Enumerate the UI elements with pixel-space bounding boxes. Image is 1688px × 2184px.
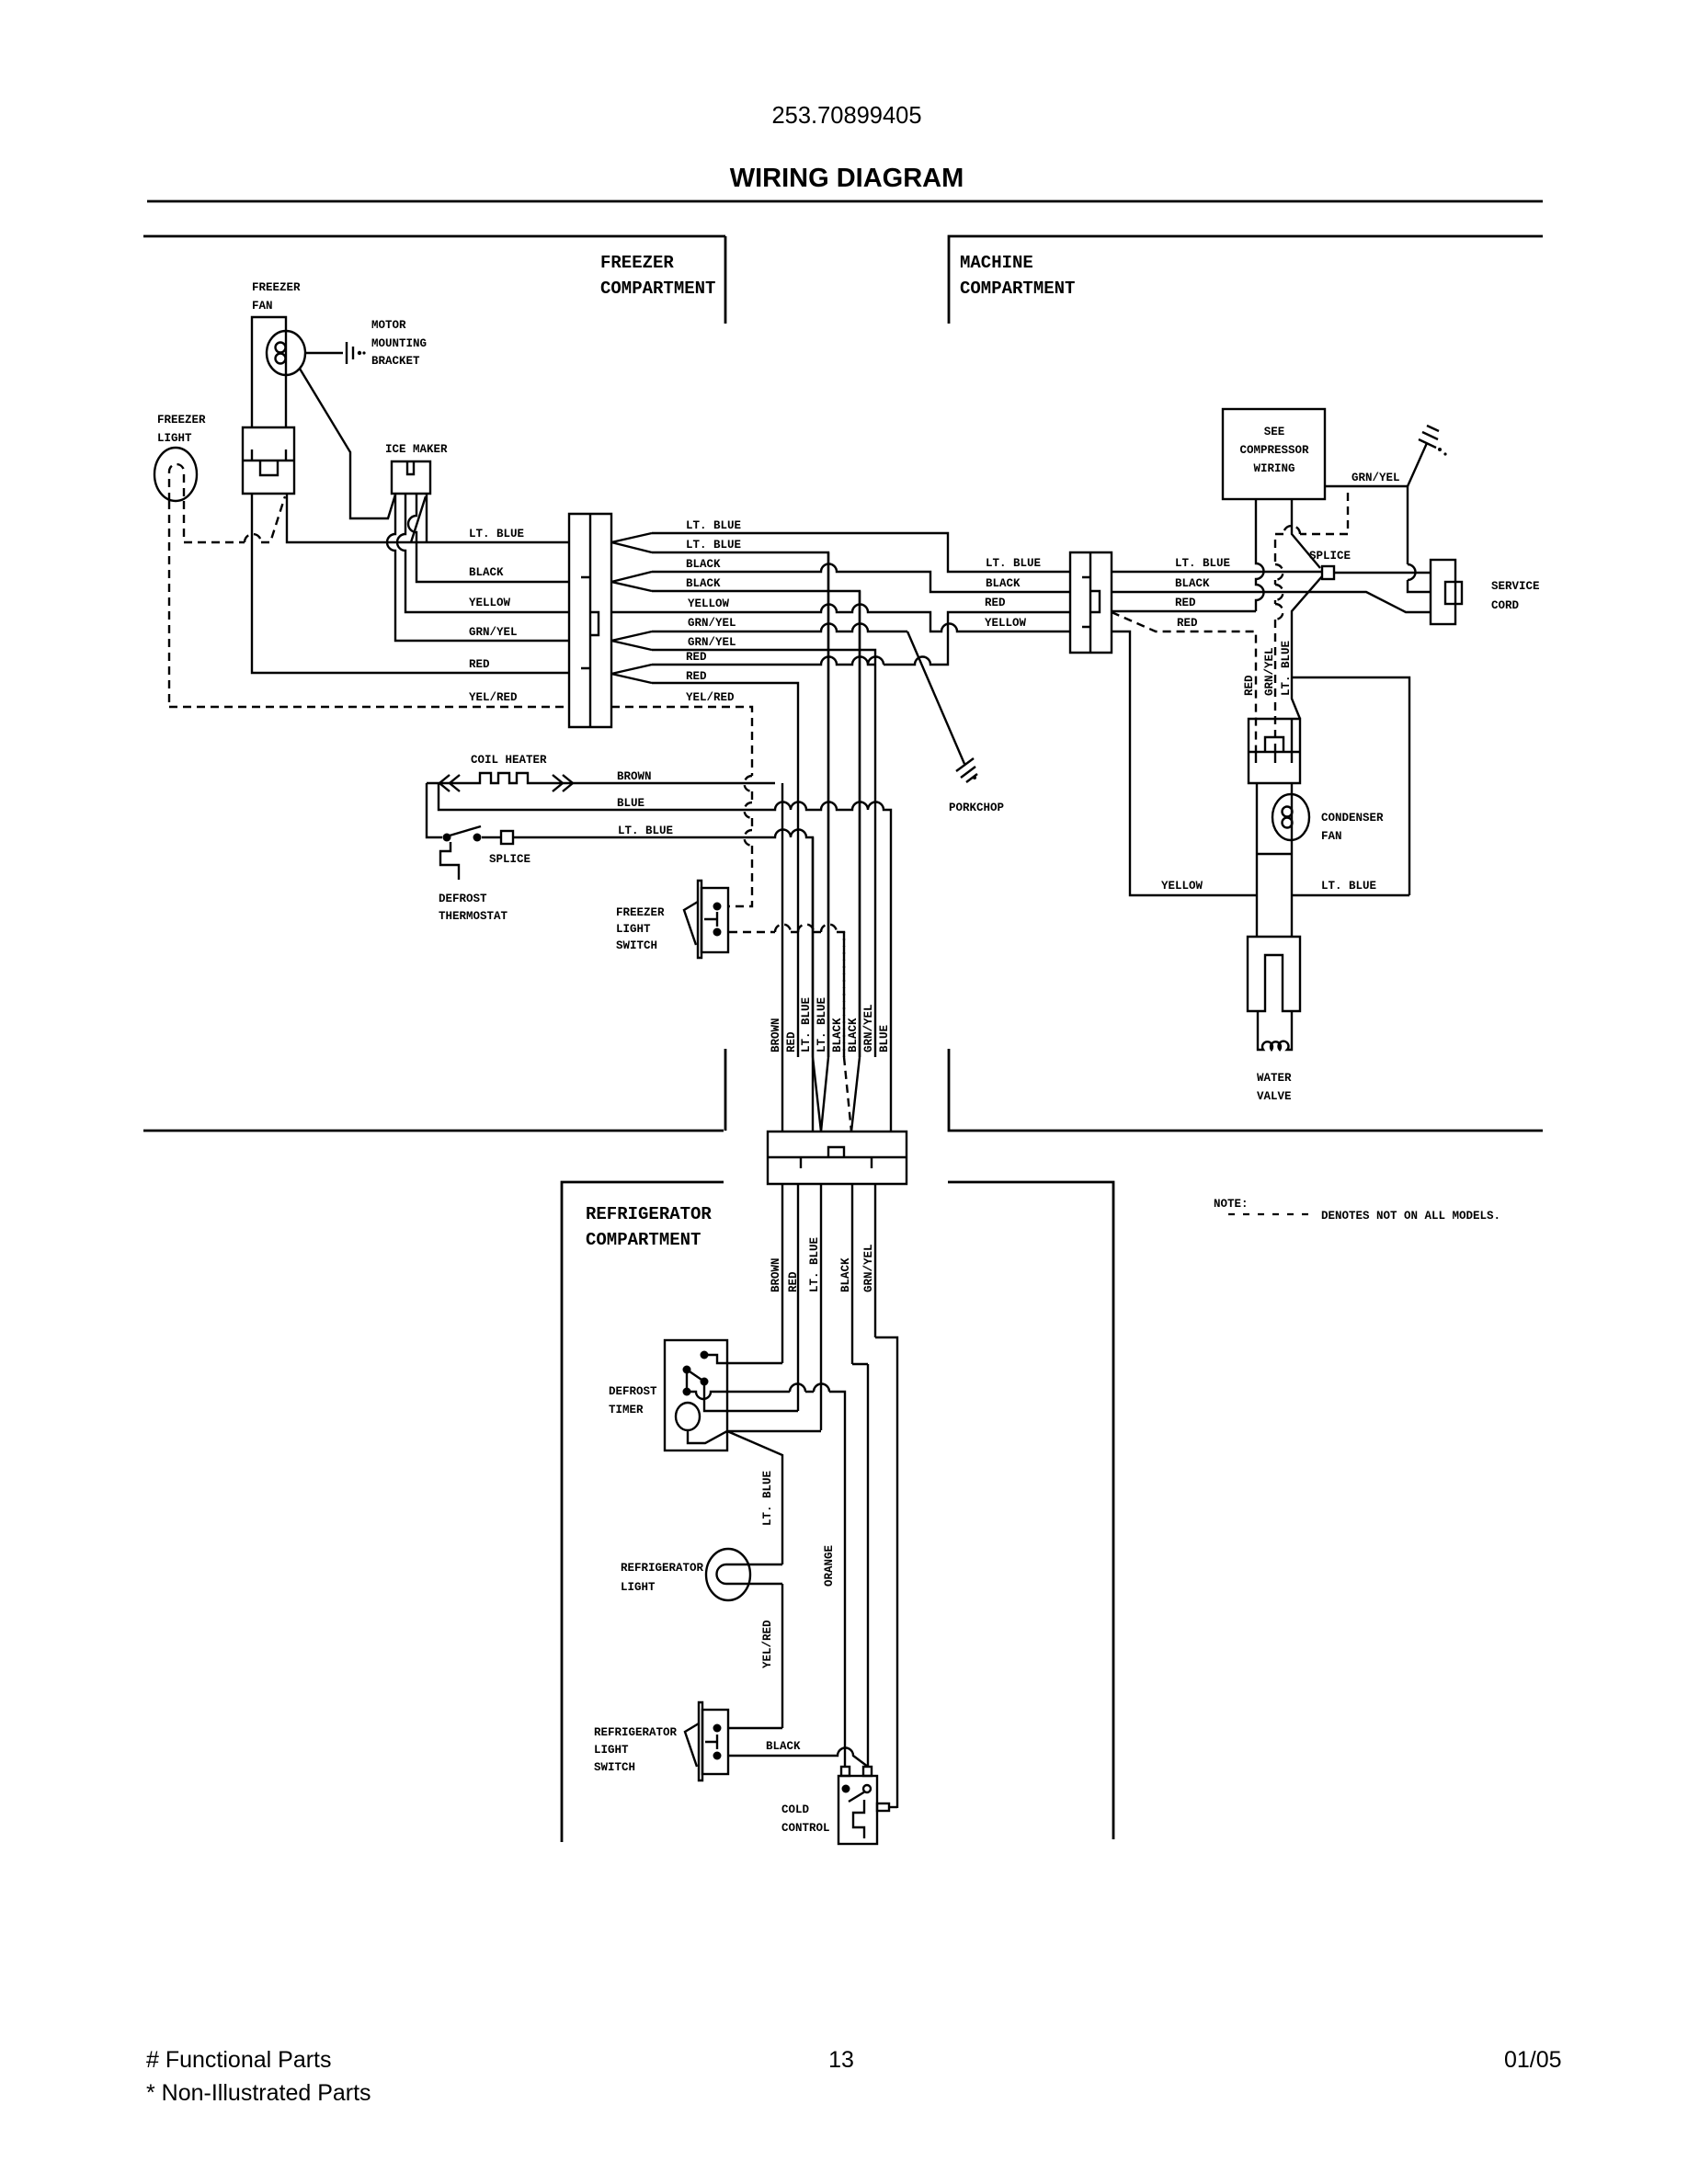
compressor connector (1249, 719, 1300, 783)
dashed hop over blue (745, 802, 752, 818)
svg-text:SWITCH: SWITCH (616, 939, 657, 952)
orange hops over red and lt.blue (790, 1384, 829, 1393)
freezer fan connector notch (260, 461, 278, 475)
freezer light switch lower dashed wire (hops 851,868,884,901) to 918 (729, 932, 844, 1057)
machine compartment boundary (949, 236, 1543, 1131)
svg-text:THERMOSTAT: THERMOSTAT (439, 910, 508, 923)
timer motor to lt.blue junction (688, 1430, 821, 1564)
condenser fan motor (1272, 794, 1309, 840)
light wires (749, 1564, 782, 1584)
timer motor (676, 1403, 700, 1430)
splice in lt.blue defrost wire (482, 830, 813, 1132)
svg-text:FREEZER: FREEZER (616, 906, 665, 919)
svg-text:LT. BLUE: LT. BLUE (761, 1471, 774, 1526)
wire lt.blue: fan connector to ice maker pin 4 (287, 494, 569, 542)
freezer connector ticks (581, 577, 590, 668)
fanout chevron grn/yel pair (611, 631, 652, 650)
svg-text:LIGHT: LIGHT (157, 432, 192, 445)
svg-text:BLACK: BLACK (839, 1257, 852, 1292)
wire brown down to refrigerator (781, 783, 783, 1132)
dashed arcs over lt.blue black red wires (1275, 564, 1283, 580)
water valve body (1248, 937, 1300, 1011)
orange wire from timer (dip under contact leg) (690, 1392, 845, 1767)
freezer light bulb (154, 448, 197, 501)
freezer light switch flange (698, 881, 701, 958)
svg-text:BLACK: BLACK (831, 1018, 844, 1052)
svg-text:GRN/YEL: GRN/YEL (1352, 472, 1400, 484)
svg-text:WATER: WATER (1257, 1072, 1292, 1085)
svg-text:RED: RED (1175, 597, 1196, 609)
svg-text:GRN/YEL: GRN/YEL (1263, 647, 1276, 696)
svg-text:01/05: 01/05 (1504, 2047, 1562, 2073)
svg-text:COLD: COLD (781, 1803, 810, 1816)
svg-text:MACHINE: MACHINE (960, 253, 1033, 273)
svg-text:CORD: CORD (1491, 599, 1520, 612)
svg-text:RED: RED (686, 651, 707, 664)
wire grn/yel1 to porkchop (hop 901,935) (652, 624, 907, 632)
svg-text:LT. BLUE: LT. BLUE (815, 997, 828, 1052)
svg-text:LIGHT: LIGHT (621, 1581, 656, 1594)
svg-text:LT. BLUE: LT. BLUE (808, 1237, 821, 1292)
dashed arc over 1405 vertical (1283, 526, 1300, 534)
svg-text:LT. BLUE: LT. BLUE (469, 528, 524, 540)
defrost thermostat left wire (427, 783, 442, 837)
defrost thermostat arm (450, 826, 481, 836)
svg-text:ICE MAKER: ICE MAKER (385, 443, 448, 456)
svg-text:SWITCH: SWITCH (594, 1761, 635, 1774)
svg-text:RED: RED (985, 597, 1006, 609)
grn/yel vertical to service cord (arc over lt.blue) (1408, 486, 1431, 592)
dashed hops lower wire (775, 925, 791, 933)
svg-text:LIGHT: LIGHT (594, 1744, 629, 1757)
svg-text:YEL/RED: YEL/RED (686, 691, 735, 704)
dashed grn/yel from box to compressor connector (1275, 493, 1348, 752)
freezer fan motor coil (276, 343, 286, 353)
freezer light switch contacts (713, 903, 722, 911)
splice square (1322, 566, 1334, 579)
svg-text:REFRIGERATOR: REFRIGERATOR (621, 1562, 704, 1575)
wire red machine connector to compressor left pin (1112, 610, 1256, 612)
lt.blue branch to condenser loop (1292, 677, 1409, 895)
wire red: fan connector to freezer connector (252, 494, 569, 673)
refrigerator light bulb (706, 1549, 750, 1600)
defrost thermostat sensor zigzag (440, 842, 459, 880)
svg-text:PORKCHOP: PORKCHOP (949, 802, 1004, 814)
svg-text:SERVICE: SERVICE (1491, 580, 1540, 593)
refrigerator harness connector (768, 1132, 907, 1184)
svg-text:YELLOW: YELLOW (985, 617, 1027, 630)
svg-text:COIL HEATER: COIL HEATER (471, 754, 547, 767)
black vertical to cold control (852, 1364, 868, 1767)
wire red dashed branch to compressor (1112, 612, 1256, 752)
svg-text:YEL/RED: YEL/RED (469, 691, 518, 704)
svg-text:TIMER: TIMER (609, 1404, 644, 1416)
compressor connector pin stubs (1256, 752, 1292, 763)
cold control contacts (842, 1785, 850, 1793)
svg-text:BLACK: BLACK (986, 577, 1021, 590)
splice to compressor connector lt.blue (1292, 576, 1322, 752)
black wire switch to cold control (729, 1748, 868, 1768)
svg-text:WIRING: WIRING (1253, 462, 1295, 475)
coil heater left arrows (439, 775, 460, 791)
svg-text:MOUNTING: MOUNTING (371, 337, 427, 350)
svg-text:YEL/RED: YEL/RED (761, 1620, 774, 1668)
porkchop ground hatches (956, 758, 977, 782)
coil heater right arrows (553, 775, 573, 791)
condenser fan leg right with motor (1291, 783, 1293, 937)
svg-text:BLACK: BLACK (1175, 577, 1210, 590)
wire grn/yel2 down to refrigerator (652, 650, 875, 1057)
svg-text:YELLOW: YELLOW (688, 597, 730, 610)
svg-text:RED: RED (787, 1271, 800, 1292)
freezer fan housing (252, 317, 286, 427)
svg-text:NOTE:: NOTE: (1214, 1198, 1249, 1211)
svg-text:BLACK: BLACK (469, 566, 504, 579)
svg-text:BRACKET: BRACKET (371, 355, 420, 368)
svg-text:GRN/YEL: GRN/YEL (862, 1004, 875, 1052)
coil heater element (427, 773, 775, 783)
svg-text:LIGHT: LIGHT (616, 923, 651, 936)
dashed hop over lt.blue (745, 830, 752, 846)
svg-text:LT. BLUE: LT. BLUE (686, 539, 741, 552)
connector ticks (801, 1157, 872, 1168)
refrigerator light switch paddle (685, 1723, 699, 1767)
compressor right pin to splice diagonal (1292, 499, 1320, 568)
cold control bellows (853, 1800, 864, 1838)
defrost thermostat contact dots (443, 834, 451, 842)
svg-text:COMPARTMENT: COMPARTMENT (586, 1230, 701, 1250)
wire lt.blue2 down to refrigerator (652, 552, 828, 1057)
bulb filament (717, 1564, 750, 1584)
svg-text:BLUE: BLUE (617, 797, 644, 810)
yellow wire machine connector to condenser loop (1112, 631, 1257, 895)
freezer connector notch (590, 612, 599, 635)
svg-text:BLACK: BLACK (766, 1740, 801, 1753)
hop of ice maker pin2 over lt.blue (397, 495, 569, 612)
wire yel/red dashed from freezer light down (168, 501, 170, 707)
svg-text:FAN: FAN (1321, 830, 1342, 843)
svg-text:GRN/YEL: GRN/YEL (469, 626, 518, 639)
grn/yel wire from compressor box to chassis ground (1325, 443, 1427, 486)
ice maker body (392, 461, 430, 494)
svg-text:BROWN: BROWN (617, 770, 652, 783)
svg-text:BLACK: BLACK (686, 577, 721, 590)
ice maker pin3 with hop over diagonal (408, 495, 569, 582)
wire yellow to machine connector (hops 901,935 jog, hop 1031) (611, 605, 1070, 632)
wire side pin to grn/yel (889, 1806, 897, 1808)
svg-text:DEFROST: DEFROST (609, 1385, 657, 1398)
freezer fan motor shaft line (285, 331, 287, 375)
arc of grn/yel over lt.blue wire (1408, 564, 1416, 580)
svg-text:REFRIGERATOR: REFRIGERATOR (594, 1726, 678, 1739)
svg-text:YELLOW: YELLOW (469, 597, 511, 609)
refrigerator compartment boundary (562, 1182, 1113, 1842)
wire red2 down to refrigerator (652, 683, 798, 1057)
porkchop ground diagonal (907, 631, 964, 764)
timer switch arm (687, 1370, 704, 1389)
svg-text:RED: RED (785, 1031, 798, 1052)
cold control arm (849, 1792, 865, 1802)
taper black pair into connector (844, 1057, 851, 1132)
switch contacts (713, 1724, 722, 1733)
freezer compartment boundary (143, 236, 725, 1131)
freezer light filament (dashed) (169, 464, 184, 501)
wire blue (hops 851,868,901,935,952) to 969 down (439, 783, 891, 1132)
wire lt.blue1 to machine connector (652, 533, 1070, 572)
wire black machine connector to service cord (hop 1366, diagonal) (1112, 592, 1431, 612)
svg-text:REFRIGERATOR: REFRIGERATOR (586, 1204, 712, 1224)
svg-text:WIRING DIAGRAM: WIRING DIAGRAM (730, 164, 964, 193)
machine connector ticks (1082, 577, 1090, 627)
svg-text:ORANGE: ORANGE (823, 1545, 836, 1587)
wire motor to bracket (305, 352, 343, 354)
svg-text:COMPARTMENT: COMPARTMENT (960, 279, 1075, 299)
water valve coil (1258, 1011, 1292, 1050)
svg-text:LT. BLUE: LT. BLUE (686, 519, 741, 532)
svg-text:FREEZER: FREEZER (600, 253, 674, 273)
svg-text:LT. BLUE: LT. BLUE (1280, 641, 1293, 696)
chassis ground hatches (1419, 426, 1439, 448)
svg-text:BROWN: BROWN (770, 1018, 782, 1052)
wires below connector (782, 1184, 875, 1430)
see compressor wiring box (1223, 409, 1325, 499)
brown wire to timer (707, 1355, 782, 1363)
wire yel/red dashed fanout to light switch (611, 707, 752, 906)
header rule (147, 200, 1543, 203)
defrost timer box (665, 1340, 727, 1450)
refrigerator light switch body (702, 1710, 728, 1774)
refrigerator light switch flange (699, 1702, 702, 1780)
ice maker top notch (407, 461, 414, 474)
wire switch top to yel/red (729, 1727, 782, 1729)
machine connector notch (1091, 591, 1100, 612)
defrost timer terminals (701, 1351, 709, 1359)
svg-text:COMPARTMENT: COMPARTMENT (600, 279, 715, 299)
fanout chevron red pair (611, 665, 652, 683)
cold control side pin (877, 1803, 889, 1811)
wire lt.blue splice to service cord (1334, 572, 1431, 574)
splice square (501, 831, 513, 844)
svg-text:# Functional Parts: # Functional Parts (146, 2047, 332, 2073)
yel/red wire light to switch (781, 1584, 783, 1728)
dashed hop over brown (745, 776, 752, 791)
svg-text:GRN/YEL: GRN/YEL (688, 636, 736, 649)
wire lt.blue machine connector to splice (hop 1366) (1112, 571, 1322, 573)
wire yel/red dashed to freezer connector (169, 706, 569, 708)
freezer light switch paddle (684, 902, 698, 945)
motor mounting bracket ground (347, 342, 353, 364)
svg-text:FREEZER: FREEZER (157, 414, 206, 427)
svg-text:BLACK: BLACK (847, 1018, 860, 1052)
hop of ice maker pin1 over lt.blue (387, 495, 569, 641)
freezer fan connector (243, 427, 294, 494)
svg-text:DENOTES NOT ON ALL MODELS.: DENOTES NOT ON ALL MODELS. (1321, 1210, 1500, 1223)
svg-text:GRN/YEL: GRN/YEL (688, 617, 736, 630)
fanout chevron lt.blue pair (611, 533, 652, 552)
wire black1 to machine connector (hop at 901) (652, 564, 1070, 593)
wire dashed light to fan (with hop over red wire) (184, 496, 285, 542)
svg-text:BLACK: BLACK (686, 558, 721, 571)
cold control body (838, 1776, 877, 1844)
svg-text:SEE: SEE (1264, 426, 1285, 438)
freezer light switch body (701, 888, 728, 952)
svg-text:COMPRESSOR: COMPRESSOR (1239, 444, 1309, 457)
svg-text:RED: RED (1177, 617, 1198, 630)
wire red1 to machine connector (hops 901,935,952,diag then up) (652, 612, 1070, 665)
red wire to timer contact (704, 1385, 798, 1411)
fanout chevron black pair (611, 572, 652, 591)
svg-text:SPLICE: SPLICE (489, 853, 530, 866)
svg-text:253.70899405: 253.70899405 (771, 103, 921, 129)
connector notch (828, 1147, 844, 1157)
svg-text:LT. BLUE: LT. BLUE (1175, 557, 1230, 570)
svg-text:BLUE: BLUE (878, 1025, 891, 1052)
svg-text:LT. BLUE: LT. BLUE (986, 557, 1041, 570)
cold control top pins (841, 1767, 850, 1776)
svg-text:MOTOR: MOTOR (371, 319, 406, 332)
svg-text:GRN/YEL: GRN/YEL (862, 1244, 875, 1292)
taper lt.blue pair into connector (813, 1057, 828, 1132)
svg-text:YELLOW: YELLOW (1161, 880, 1203, 893)
svg-text:RED: RED (1243, 675, 1256, 696)
svg-text:RED: RED (469, 658, 490, 671)
svg-text:CONTROL: CONTROL (781, 1822, 830, 1835)
svg-text:VALVE: VALVE (1257, 1090, 1292, 1103)
grn/yel vertical to cold control (875, 1337, 897, 1808)
condenser fan return (1257, 853, 1292, 855)
svg-text:13: 13 (828, 2047, 854, 2073)
svg-text:FAN: FAN (252, 300, 273, 313)
svg-text:CONDENSER: CONDENSER (1321, 812, 1384, 825)
freezer fan motor M1 (267, 331, 305, 375)
service cord plug (1431, 560, 1455, 624)
svg-text:DEFROST: DEFROST (439, 893, 487, 905)
hop red1 over grn/yel2 vertical (868, 657, 884, 665)
condenser fan leg left (1256, 783, 1258, 937)
svg-text:* Non-Illustrated Parts: * Non-Illustrated Parts (146, 2080, 371, 2106)
service cord inner notch (1445, 582, 1462, 604)
svg-text:LT. BLUE: LT. BLUE (1321, 880, 1376, 893)
svg-text:RED: RED (686, 670, 707, 683)
compressor left pin to red wire (arcs over lt.blue, black) (1256, 499, 1264, 611)
svg-text:BROWN: BROWN (770, 1257, 782, 1292)
ice maker pin4 (426, 495, 428, 542)
svg-text:LT. BLUE: LT. BLUE (800, 997, 813, 1052)
svg-text:FREEZER: FREEZER (252, 281, 301, 294)
machine connector J2 (1070, 552, 1112, 653)
compressor connector notch (1265, 737, 1283, 752)
wire black2 down to refrigerator (hop none) (652, 591, 860, 1057)
svg-text:LT. BLUE: LT. BLUE (618, 825, 673, 837)
wire motor to ice maker pin 1 (300, 369, 395, 518)
svg-text:SPLICE: SPLICE (1309, 550, 1351, 563)
freezer connector J1 (569, 514, 611, 727)
